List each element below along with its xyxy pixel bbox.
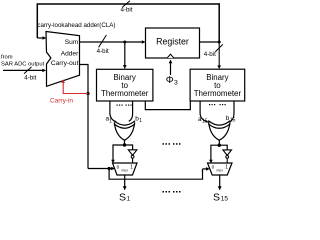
svg-text:1: 1 [139, 118, 142, 124]
svg-text:Thermometer: Thermometer [194, 89, 242, 98]
svg-text:mux: mux [216, 169, 223, 173]
svg-text:15: 15 [230, 118, 236, 124]
svg-text:4-bit: 4-bit [120, 6, 132, 13]
svg-text:SAR ADC output: SAR ADC output [1, 62, 45, 68]
svg-text:4-bit: 4-bit [97, 48, 109, 55]
svg-text:1: 1 [127, 195, 131, 202]
svg-text:4-bit: 4-bit [24, 74, 36, 81]
svg-text:1: 1 [130, 164, 133, 170]
svg-text:Carry-in: Carry-in [50, 98, 73, 105]
svg-text:from: from [1, 55, 13, 61]
svg-text:1: 1 [109, 118, 112, 124]
svg-text:Register: Register [156, 37, 189, 47]
svg-text:1: 1 [225, 164, 228, 170]
svg-text:S: S [119, 191, 126, 203]
svg-text:Thermometer: Thermometer [101, 89, 149, 98]
svg-text:15: 15 [221, 195, 229, 202]
svg-text:4-bit: 4-bit [204, 51, 216, 58]
svg-text:mux: mux [121, 169, 128, 173]
svg-text:Carry-out: Carry-out [51, 60, 79, 67]
svg-text:3: 3 [174, 79, 178, 86]
svg-text:Sum: Sum [65, 39, 79, 46]
svg-text:0: 0 [117, 164, 120, 169]
svg-text:15: 15 [202, 119, 208, 125]
svg-text:Φ: Φ [166, 75, 174, 86]
svg-text:carry-lookahead adder(CLA): carry-lookahead adder(CLA) [37, 22, 115, 29]
svg-text:Adder: Adder [61, 51, 79, 58]
svg-text:0: 0 [212, 164, 215, 169]
svg-text:S: S [213, 191, 220, 203]
